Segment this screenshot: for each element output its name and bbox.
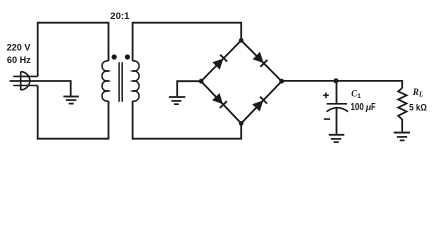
svg-text:220 V: 220 V [7, 41, 32, 52]
svg-text:60 Hz: 60 Hz [7, 54, 31, 65]
svg-text:5 kΩ: 5 kΩ [409, 102, 427, 113]
svg-text:100: 100 [351, 102, 364, 113]
svg-text:C1: C1 [351, 89, 361, 100]
svg-text:20:1: 20:1 [110, 10, 129, 21]
svg-text:RL: RL [412, 87, 423, 98]
svg-text:F: F [371, 102, 375, 113]
